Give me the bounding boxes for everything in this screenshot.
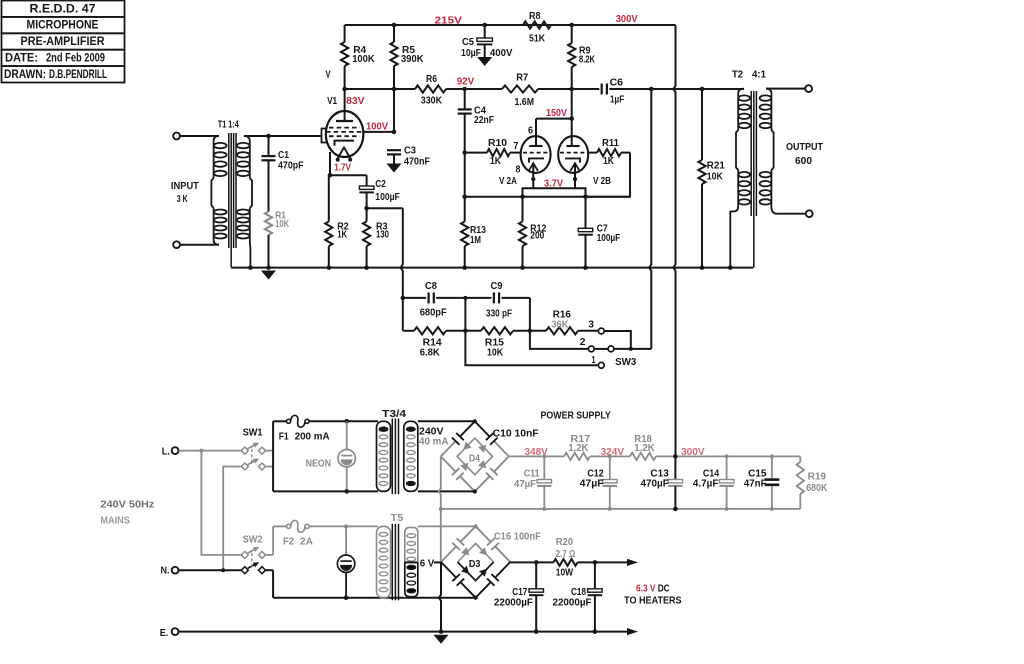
node R3 top — [364, 206, 369, 211]
svg-text:T5: T5 — [391, 513, 404, 524]
resistor R3 130 — [363, 208, 389, 267]
svg-text:470nF: 470nF — [404, 157, 430, 168]
svg-text:SW1: SW1 — [243, 427, 263, 438]
svg-text:150V: 150V — [546, 108, 567, 119]
svg-text:F2: F2 — [283, 537, 294, 548]
wire T5 bottom-left vertical — [272, 570, 274, 598]
wire V1 screen to C3 node (100V) — [363, 131, 394, 133]
svg-text:83V: 83V — [346, 96, 365, 107]
wire C4 node down — [464, 153, 466, 222]
svg-text:R8: R8 — [529, 11, 541, 22]
capacitor C6 1uF — [602, 77, 652, 105]
wire T5 secondary top to bridge (grey) — [418, 525, 476, 527]
svg-text:T2: T2 — [732, 70, 743, 81]
svg-text:215V: 215V — [435, 16, 463, 27]
capacitor C13 470uF — [641, 454, 683, 509]
capacitor C11 47uF — [514, 454, 552, 509]
svg-text:T1 1:4: T1 1:4 — [218, 120, 239, 131]
svg-text:200 mA: 200 mA — [295, 432, 330, 443]
svg-text:22nF: 22nF — [474, 115, 494, 126]
svg-text:R10: R10 — [488, 138, 507, 149]
svg-text:INPUT: INPUT — [171, 181, 200, 192]
svg-text:MICROPHONE: MICROPHONE — [27, 20, 99, 32]
svg-text:40 mA: 40 mA — [419, 437, 449, 448]
arrow heater return — [627, 628, 638, 635]
svg-text:36K: 36K — [551, 319, 568, 330]
resistor R5 390K — [390, 23, 424, 89]
wire T1 secondary to V1 grid — [244, 135, 322, 137]
svg-text:C18: C18 — [571, 587, 586, 598]
svg-text:3 K: 3 K — [177, 194, 188, 205]
resistor R15 10K — [481, 327, 546, 358]
svg-text:22000µF: 22000µF — [553, 598, 592, 609]
svg-text:R.E.D.D. 47: R.E.D.D. 47 — [30, 3, 96, 15]
wire SW2 outputs — [265, 554, 274, 556]
svg-text:C2: C2 — [375, 179, 386, 190]
resistor R17 1.2K — [564, 434, 591, 460]
svg-text:47nF: 47nF — [744, 479, 767, 490]
V2B cathode lead — [574, 165, 576, 178]
svg-text:680K: 680K — [806, 483, 828, 494]
arrow heater + — [627, 559, 638, 566]
switch SW1 — [241, 427, 265, 470]
svg-text:C8: C8 — [425, 281, 437, 292]
svg-text:V1: V1 — [327, 96, 337, 107]
svg-text:DATE:: DATE: — [5, 53, 38, 65]
svg-text:R21: R21 — [707, 161, 725, 172]
wire R6 to 92V node — [446, 88, 502, 90]
svg-text:6.3 V: 6.3 V — [636, 584, 656, 595]
node 1.7V — [328, 173, 333, 178]
svg-text:C6: C6 — [610, 77, 624, 88]
svg-text:V 2A: V 2A — [499, 176, 517, 187]
resistor R9 8.2K — [568, 23, 595, 89]
svg-text:300V: 300V — [616, 14, 638, 25]
wire 215V top rail — [345, 24, 676, 26]
resistor R11 1K — [588, 138, 630, 167]
resistor R6 330K — [415, 74, 446, 107]
svg-text:3: 3 — [588, 319, 594, 330]
capacitor C9 330pF — [486, 281, 530, 320]
node feedback tap — [649, 87, 654, 92]
svg-text:C17: C17 — [512, 587, 527, 598]
capacitor C18 22000uF — [553, 560, 603, 631]
svg-text:92V: 92V — [457, 77, 475, 88]
transformer T2 4:1 — [730, 70, 806, 268]
wire earth line — [179, 631, 630, 633]
resistor R14 6.8K — [414, 327, 481, 358]
capacitor C1 470pF — [262, 136, 304, 212]
svg-text:1M: 1M — [470, 235, 481, 246]
svg-text:10K: 10K — [487, 348, 503, 359]
svg-text:2A: 2A — [300, 537, 313, 548]
wire R3 top to feedback column — [367, 207, 403, 209]
bridge rectifier D3 — [441, 524, 510, 600]
wire grid-return line — [465, 196, 630, 198]
svg-text:T3/4: T3/4 — [382, 409, 406, 420]
svg-text:V 2B: V 2B — [593, 176, 611, 187]
wire L to SW1 (grey) — [179, 450, 243, 452]
svg-text:PRE-AMPLIFIER: PRE-AMPLIFIER — [21, 36, 106, 48]
svg-text:240V 50Hz: 240V 50Hz — [100, 500, 154, 511]
node C8-C9 mid — [463, 296, 467, 300]
svg-text:200: 200 — [530, 231, 544, 242]
svg-text:7: 7 — [513, 141, 518, 152]
svg-text:600: 600 — [795, 156, 812, 167]
svg-text:1K: 1K — [490, 156, 501, 167]
fuse F2 — [273, 520, 378, 547]
transformer T1 1:4 — [211, 120, 252, 268]
svg-text:100V: 100V — [366, 122, 388, 133]
earth line junctions — [439, 629, 444, 634]
svg-text:1.2K: 1.2K — [634, 443, 655, 454]
tube V2B — [558, 136, 588, 173]
svg-text:POWER SUPPLY: POWER SUPPLY — [541, 410, 611, 421]
wire R7 to R9 node — [538, 88, 599, 90]
wire D4 right vertex 348V — [509, 455, 564, 457]
svg-text:1.2K: 1.2K — [568, 443, 588, 454]
capacitor C12 47uF — [580, 454, 617, 509]
svg-text:4.7µF: 4.7µF — [693, 479, 719, 490]
wire T3/4 secondary bottom to bridge — [418, 490, 475, 492]
svg-text:10K: 10K — [707, 171, 723, 182]
wire feedback left column — [401, 208, 403, 330]
svg-text:47µF: 47µF — [580, 479, 604, 490]
svg-text:C1: C1 — [278, 150, 289, 161]
wire D3 left vertex to earth — [439, 562, 441, 631]
wire T5 primary bottom — [273, 597, 405, 599]
label 240V 40mA — [419, 426, 449, 447]
svg-text:DC: DC — [658, 584, 670, 595]
output terminal top — [805, 85, 812, 92]
resistor R8 51K — [523, 11, 551, 45]
capacitor C14 4.7uF — [693, 454, 734, 509]
svg-text:680pF: 680pF — [420, 308, 447, 319]
svg-text:8: 8 — [516, 164, 521, 175]
svg-text:470pF: 470pF — [278, 161, 304, 172]
capacitor C15 47nF — [744, 454, 779, 509]
wire feedback riser to SW3 — [649, 89, 651, 349]
input terminal top — [173, 133, 180, 140]
svg-text:300V: 300V — [681, 447, 705, 458]
input terminal bottom — [173, 241, 180, 248]
svg-text:10K: 10K — [275, 219, 289, 230]
svg-text:470µF: 470µF — [641, 479, 669, 490]
wire D4 left vertex down (0V) — [439, 456, 441, 562]
ground symbol on earth line — [434, 635, 449, 644]
wire N branch to SW1 lower (grey) — [223, 467, 242, 571]
neon lamp — [306, 419, 356, 494]
output terminal bottom — [806, 210, 813, 217]
wire C9 right to switch pos2 — [530, 298, 589, 349]
svg-text:6: 6 — [528, 125, 533, 136]
svg-text:OUTPUT: OUTPUT — [786, 142, 824, 153]
wire T3/4 primary bottom — [273, 490, 378, 492]
wire T5 bottom to D3 bottom vertex — [405, 597, 476, 599]
svg-text:1K: 1K — [337, 230, 347, 241]
ground below C3 — [387, 164, 402, 173]
svg-text:6 V: 6 V — [420, 559, 435, 570]
ground below C5 — [477, 57, 492, 66]
svg-text:1.7V: 1.7V — [334, 163, 351, 174]
tube V1 — [322, 89, 364, 162]
svg-text:R20: R20 — [556, 537, 573, 548]
wire F2 feed vertical (grey) — [272, 526, 274, 555]
switch SW2 — [241, 535, 265, 574]
svg-text:V: V — [326, 70, 331, 81]
resistor R2 1K — [325, 175, 349, 267]
wire C8/C9 row — [403, 297, 426, 299]
wire R11 right corner down — [586, 153, 631, 197]
resistor R18 1.2K — [630, 434, 656, 460]
resistor R16 36K — [546, 309, 598, 334]
svg-text:NEON: NEON — [306, 459, 331, 470]
wire main ground bus — [231, 267, 753, 269]
wire N to SW2 — [179, 569, 243, 571]
wire anode rail y=89 — [345, 88, 415, 90]
svg-text:E.: E. — [160, 628, 169, 639]
wire C6 to T2 primary — [651, 88, 744, 90]
svg-text:330K: 330K — [421, 96, 443, 107]
capacitor C5 10uF 400V — [461, 23, 512, 59]
svg-text:DRAWN:: DRAWN: — [4, 69, 46, 81]
label OUTPUT 600 — [786, 142, 824, 167]
svg-text:2: 2 — [580, 337, 586, 348]
transformer T3/4 — [377, 409, 418, 494]
resistor R4 100K — [341, 25, 375, 89]
wire R18 to 300V node and beyond — [656, 455, 800, 457]
svg-text:C9: C9 — [491, 281, 503, 292]
svg-text:10W: 10W — [556, 567, 573, 578]
svg-text:8.2K: 8.2K — [579, 54, 595, 65]
svg-text:100µF: 100µF — [597, 233, 621, 244]
wire R14/R15/R16 row — [403, 330, 414, 332]
resistor R21 10K — [698, 89, 725, 268]
wire T3/4 secondary top to bridge — [418, 420, 475, 422]
ground bus junctions — [248, 265, 253, 270]
wire input top to T1 — [180, 135, 219, 137]
label mains 240V 50Hz MAINS — [100, 500, 154, 527]
svg-text:130: 130 — [376, 230, 389, 241]
resistor R7 1.6M — [502, 72, 538, 108]
svg-text:100K: 100K — [352, 54, 375, 65]
transformer T5 — [377, 513, 418, 600]
svg-text:SW3: SW3 — [615, 357, 636, 368]
capacitor C7 100uF — [578, 197, 620, 268]
svg-text:4:1: 4:1 — [752, 70, 766, 81]
capacitor C17 22000uF — [494, 560, 544, 631]
svg-text:2.7 Ω: 2.7 Ω — [556, 549, 576, 560]
resistor R13 1M — [461, 222, 486, 268]
svg-text:2nd Feb 2009: 2nd Feb 2009 — [46, 53, 105, 65]
svg-text:D.B.PENDRILL: D.B.PENDRILL — [49, 69, 107, 81]
bridge rectifier D4 — [441, 419, 509, 493]
resistor R1 10K (grey) — [265, 210, 290, 235]
svg-text:1µF: 1µF — [610, 95, 624, 106]
svg-text:100µF: 100µF — [375, 192, 400, 203]
capacitor C4 22nF — [458, 89, 494, 153]
svg-text:390K: 390K — [401, 54, 424, 65]
svg-text:6.8K: 6.8K — [420, 348, 440, 359]
wire PSU 0V bus — [441, 508, 801, 510]
node 92V — [462, 87, 467, 92]
svg-text:R7: R7 — [516, 72, 528, 83]
wire L branch to SW2 (grey) — [201, 451, 242, 555]
wire T3/4 primary left vertical — [272, 421, 274, 491]
svg-text:1.6M: 1.6M — [515, 97, 535, 108]
svg-text:F1: F1 — [279, 432, 289, 443]
wire 3.7V cathode bus — [523, 188, 586, 197]
label 6.3V DC TO HEATERS — [624, 584, 682, 607]
svg-text:R6: R6 — [426, 74, 437, 85]
wire 300V feed (PSU riser) — [673, 25, 675, 456]
dial lamp (6V) — [337, 524, 354, 600]
resistor R10 1K — [465, 138, 521, 167]
svg-text:51K: 51K — [529, 34, 545, 45]
svg-text:C3: C3 — [404, 146, 416, 157]
fuse F1 — [273, 415, 378, 442]
wire T5 tap to D3 left vertex — [405, 561, 418, 563]
svg-text:TO HEATERS: TO HEATERS — [624, 596, 682, 607]
wire SW1 outputs (grey stubs) — [265, 450, 274, 452]
wire input bottom to T1 — [180, 244, 219, 246]
resistor R19 680K — [797, 456, 828, 509]
svg-text:330 pF: 330 pF — [486, 309, 512, 320]
svg-text:R19: R19 — [808, 472, 827, 483]
svg-text:C10 10nF: C10 10nF — [493, 428, 539, 439]
wire 150V anode link — [536, 118, 572, 120]
V2A cathode lead — [532, 165, 534, 178]
wire V1 cathode lead — [329, 152, 331, 175]
svg-text:1K: 1K — [603, 156, 614, 167]
svg-text:MAINS: MAINS — [100, 515, 129, 526]
wire R20 to heater + output — [578, 561, 630, 563]
wire R5 bottom to 100V node — [393, 89, 395, 132]
ground symbol below R1 — [266, 265, 271, 270]
capacitor C8 680pF — [420, 281, 492, 319]
svg-text:400V: 400V — [490, 48, 513, 59]
svg-text:D4: D4 — [469, 454, 480, 465]
capacitor C3 470nF — [387, 146, 430, 168]
capacitor C2 100uF — [359, 175, 399, 208]
svg-text:C5: C5 — [462, 37, 474, 48]
wire D3 right vertex 6.3V — [510, 561, 553, 563]
wire C8-C9 to switch pos1 — [465, 298, 598, 365]
svg-text:SW2: SW2 — [243, 535, 263, 546]
tube V2A — [521, 136, 551, 173]
node R21 top — [700, 87, 705, 92]
svg-text:N.: N. — [161, 565, 170, 576]
switch SW3 — [580, 319, 652, 368]
svg-text:47µF: 47µF — [514, 479, 536, 490]
svg-text:D3: D3 — [469, 559, 481, 570]
wire R1 to ground bus — [268, 235, 270, 268]
label INPUT 3K — [171, 181, 200, 205]
svg-text:C16 100nF: C16 100nF — [494, 532, 541, 543]
svg-text:1: 1 — [592, 355, 596, 366]
wire 1.7V to C2 — [330, 174, 367, 176]
svg-text:C11: C11 — [524, 468, 540, 479]
title block — [2, 1, 125, 83]
node C1 top — [266, 134, 271, 139]
svg-text:22000µF: 22000µF — [494, 598, 533, 609]
wire R17 to R18 — [590, 455, 630, 457]
resistor R12 200 — [519, 197, 547, 268]
svg-text:240V: 240V — [419, 426, 444, 437]
resistor R20 2.7ohm 10W — [554, 537, 578, 578]
svg-text:R11: R11 — [602, 138, 619, 149]
svg-text:L.: L. — [162, 446, 170, 457]
